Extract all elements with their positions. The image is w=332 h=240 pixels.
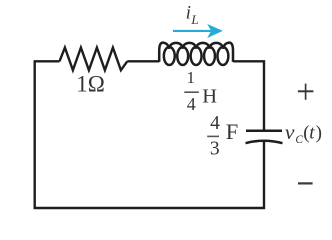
svg-text:i: i bbox=[186, 3, 191, 23]
svg-text:L: L bbox=[190, 12, 198, 27]
svg-text:C: C bbox=[295, 134, 303, 146]
svg-text:4: 4 bbox=[187, 94, 196, 114]
svg-text:F: F bbox=[226, 119, 239, 144]
svg-text:H: H bbox=[202, 85, 217, 107]
svg-text:1: 1 bbox=[187, 68, 196, 87]
svg-text:1Ω: 1Ω bbox=[76, 72, 105, 97]
svg-text:t: t bbox=[309, 122, 315, 143]
svg-text:v: v bbox=[285, 120, 295, 144]
svg-text:4: 4 bbox=[210, 113, 220, 134]
svg-text:3: 3 bbox=[210, 139, 220, 160]
svg-text:): ) bbox=[316, 122, 322, 143]
